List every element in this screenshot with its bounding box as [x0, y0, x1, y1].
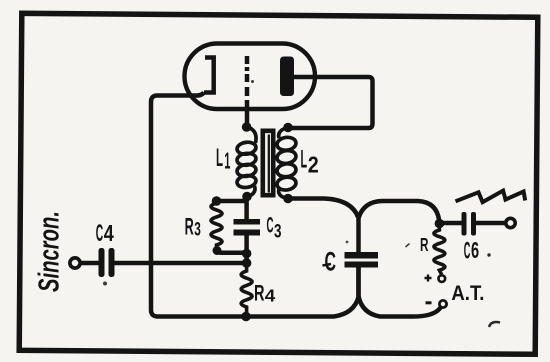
wire: L2 bottom to center neck — [288, 199, 359, 253]
tube grid (dashed) — [245, 56, 250, 96]
node: R4 at bus — [241, 312, 251, 322]
svg-text:R: R — [185, 213, 194, 240]
label L1 — [216, 144, 230, 174]
terminal: Sincron input circle — [70, 258, 80, 268]
coil L1 — [236, 127, 256, 197]
wire: R3 bottom to node — [217, 248, 247, 253]
terminal: antenna circle — [506, 218, 515, 227]
ink speck near C label — [346, 241, 349, 244]
capacitor C4 — [99, 248, 115, 277]
wire: L1 bottom down through C3 branch — [244, 197, 249, 220]
node: L2 bottom junction — [283, 194, 293, 204]
svg-text:A.T.: A.T. — [451, 282, 484, 305]
svg-text:R: R — [254, 281, 265, 306]
wire: C6 to antenna terminal — [476, 221, 505, 226]
svg-text:4: 4 — [104, 220, 114, 246]
svg-text:Sincron.: Sincron. — [34, 211, 66, 292]
svg-text:1: 1 — [224, 148, 230, 174]
coil L2 — [276, 128, 297, 199]
wire: right loop top to R junction — [359, 201, 440, 221]
svg-text:C: C — [464, 237, 471, 264]
ink speck below C4 — [103, 282, 107, 286]
ink speck near grid — [251, 80, 254, 83]
capacitor C — [345, 252, 379, 268]
tube cathode electrode — [204, 58, 214, 93]
wire: right loop bottom — [359, 268, 441, 317]
resistor R — [434, 224, 445, 275]
svg-text:C: C — [325, 247, 337, 277]
label C — [323, 247, 337, 277]
label R4 — [254, 281, 276, 306]
svg-text:4: 4 — [265, 286, 276, 306]
node: L1 top junction — [242, 122, 252, 132]
wire: C3 bottom to R4 — [244, 236, 249, 267]
svg-text:3: 3 — [274, 221, 282, 243]
terminal: + of A.T. — [439, 275, 446, 282]
node: C4 wire junction — [242, 258, 252, 268]
label L2 — [301, 146, 319, 178]
svg-text:C: C — [96, 220, 103, 247]
node: R3 bottom — [213, 246, 222, 255]
resistor R3 — [211, 201, 222, 249]
antenna zigzag — [456, 191, 526, 203]
svg-text:L: L — [301, 146, 308, 174]
tube anode plate — [280, 57, 294, 97]
wire: grid down to L1 top — [245, 100, 250, 127]
ink squiggle bottom right — [489, 322, 500, 327]
wire: anode loop to L2 top — [288, 77, 373, 128]
node: L2 top junction — [283, 123, 293, 133]
resistor R4 — [241, 263, 252, 318]
tube V1 envelope — [185, 44, 316, 110]
plus sign — [425, 275, 432, 282]
capacitor C3 — [234, 219, 261, 236]
svg-text:2: 2 — [308, 152, 319, 178]
wire: C4 to R4 node — [115, 261, 247, 266]
node: R3 top — [212, 196, 222, 206]
svg-text:R: R — [420, 234, 429, 255]
capacitor C6 — [462, 212, 477, 236]
ink tick left of R — [406, 244, 410, 248]
svg-text:L: L — [216, 144, 223, 172]
wire: terminal to C4 — [81, 261, 99, 266]
node: R/C6 junction — [435, 219, 445, 229]
wire: cathode to left rail and bottom bus — [151, 93, 359, 317]
node: C3/R3 junction — [242, 249, 252, 259]
wire: junction to C6 — [439, 221, 461, 226]
node: L1 bottom junction — [242, 192, 252, 202]
wire: R3 top horizontal — [217, 199, 247, 204]
svg-text:6: 6 — [471, 237, 479, 263]
minus sign — [426, 301, 432, 304]
transformer core — [263, 131, 273, 195]
svg-text:3: 3 — [194, 219, 201, 241]
terminal: - of A.T. — [439, 300, 446, 307]
svg-text:C: C — [267, 213, 274, 238]
